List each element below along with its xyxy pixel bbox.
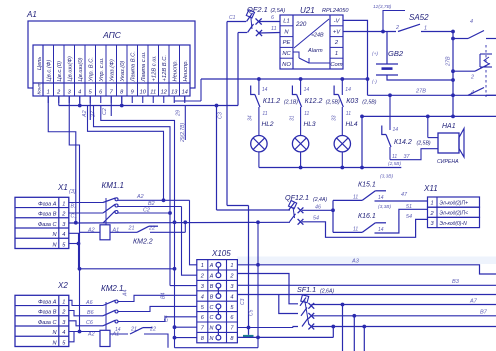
- svg-text:Фаза А: Фаза А: [38, 299, 57, 305]
- svg-text:1: 1: [62, 299, 65, 305]
- svg-text:11: 11: [346, 111, 351, 117]
- svg-text:С3: С3: [240, 298, 246, 305]
- svg-text:К11.2: К11.2: [263, 98, 280, 105]
- svg-text:14: 14: [262, 87, 268, 93]
- svg-text:С: С: [210, 305, 214, 311]
- svg-text:34: 34: [248, 115, 254, 121]
- svg-text:В4: В4: [161, 293, 167, 299]
- svg-text:N: N: [210, 336, 214, 342]
- svg-text:33: 33: [332, 115, 338, 121]
- svg-text:14: 14: [115, 327, 121, 333]
- svg-text:2: 2: [470, 75, 474, 81]
- svg-text:13: 13: [171, 90, 178, 96]
- svg-text:С: С: [210, 315, 214, 321]
- svg-text:U21: U21: [300, 6, 315, 15]
- svg-text:4: 4: [470, 19, 473, 25]
- svg-text:С1: С1: [229, 15, 236, 21]
- svg-text:14: 14: [345, 87, 351, 93]
- svg-text:С6: С6: [86, 320, 93, 326]
- svg-text:SF1.1: SF1.1: [297, 285, 316, 294]
- svg-text:54: 54: [406, 214, 412, 220]
- svg-text:11: 11: [150, 90, 156, 96]
- svg-text:С1: С1: [71, 214, 78, 220]
- svg-text:В3: В3: [452, 279, 460, 285]
- svg-text:А2: А2: [87, 332, 95, 338]
- svg-text:А7: А7: [469, 298, 478, 304]
- svg-text:В: В: [210, 284, 214, 290]
- svg-text:(3,3В): (3,3В): [378, 204, 391, 210]
- svg-text:СИРЕНА: СИРЕНА: [437, 159, 459, 165]
- svg-text:QF12.1: QF12.1: [285, 193, 309, 202]
- svg-text:Цв.ши(Ф): Цв.ши(Ф): [67, 56, 73, 81]
- svg-text:1: 1: [335, 51, 338, 57]
- svg-text:А3: А3: [351, 259, 360, 265]
- svg-text:Неиспр.: Неиспр.: [172, 60, 178, 82]
- svg-text:+12В В.С.: +12В В.С.: [162, 55, 168, 82]
- svg-text:51: 51: [406, 204, 412, 210]
- svg-text:HL2: HL2: [262, 121, 274, 128]
- svg-text:К14.2: К14.2: [394, 139, 412, 146]
- svg-text:14: 14: [378, 195, 384, 201]
- svg-text:12: 12: [161, 90, 168, 96]
- svg-text:КМ1.1: КМ1.1: [102, 181, 125, 190]
- svg-text:(-): (-): [372, 79, 377, 85]
- svg-text:Фаза С: Фаза С: [38, 222, 58, 228]
- svg-text:37: 37: [404, 154, 411, 160]
- svg-text:N: N: [210, 326, 214, 332]
- svg-text:Упр. с.ш.: Упр. с.ш.: [99, 57, 105, 82]
- svg-text:4: 4: [201, 294, 204, 300]
- svg-text:SA52: SA52: [409, 13, 429, 22]
- svg-text:11: 11: [304, 111, 309, 117]
- svg-text:К03: К03: [346, 98, 358, 105]
- svg-text:GB2: GB2: [388, 49, 404, 58]
- svg-text:11: 11: [271, 26, 277, 32]
- svg-text:Указ.(0): Указ.(0): [120, 61, 126, 83]
- svg-text:12(3,7В): 12(3,7В): [373, 4, 392, 10]
- svg-text:К12.2: К12.2: [305, 98, 323, 105]
- svg-text:С2: С2: [143, 208, 150, 214]
- svg-text:54: 54: [313, 216, 319, 222]
- svg-text:С2: С2: [102, 108, 108, 115]
- svg-text:11: 11: [353, 195, 358, 201]
- svg-text:В1: В1: [71, 204, 77, 210]
- svg-text:Com: Com: [330, 62, 342, 68]
- svg-text:Х11: Х11: [423, 184, 438, 193]
- svg-text:Упр. В.С.: Упр. В.С.: [88, 57, 94, 83]
- svg-text:31: 31: [290, 115, 296, 121]
- svg-text:HL3: HL3: [304, 121, 316, 128]
- svg-text:Фаза В: Фаза В: [38, 212, 57, 218]
- svg-text:КМ2.2: КМ2.2: [133, 239, 153, 246]
- svg-text:Конт: Конт: [37, 82, 43, 94]
- svg-text:Указ.(Ф): Указ.(Ф): [109, 59, 115, 82]
- svg-text:QF2.1: QF2.1: [247, 5, 268, 14]
- svg-text:+12В с.ш.: +12В с.ш.: [151, 55, 157, 81]
- svg-text:АПС: АПС: [102, 30, 122, 40]
- svg-text:1: 1: [230, 263, 233, 269]
- svg-text:11: 11: [392, 154, 397, 160]
- svg-text:(2,4А): (2,4А): [313, 197, 327, 203]
- svg-text:14: 14: [378, 227, 384, 233]
- svg-text:Цепь: Цепь: [37, 57, 43, 70]
- svg-text:14: 14: [393, 127, 399, 133]
- svg-text:(2,5В): (2,5В): [388, 161, 401, 167]
- svg-text:1: 1: [201, 263, 204, 269]
- svg-text:Эл-код(2)П<: Эл-код(2)П<: [440, 211, 469, 217]
- svg-text:Фаза С: Фаза С: [38, 320, 58, 326]
- svg-text:14: 14: [304, 87, 310, 93]
- svg-text:4: 4: [230, 294, 233, 300]
- svg-text:Эл-код(0)-N: Эл-код(0)-N: [440, 221, 468, 227]
- svg-text:PE: PE: [283, 40, 291, 46]
- svg-text:А1: А1: [26, 10, 37, 19]
- svg-text:9: 9: [131, 90, 134, 96]
- svg-text:(+): (+): [372, 51, 378, 57]
- svg-text:(2,6А): (2,6А): [320, 289, 334, 295]
- svg-text:(3,3В): (3,3В): [380, 174, 393, 180]
- svg-text:А2: А2: [136, 194, 144, 200]
- svg-text:В7: В7: [480, 309, 488, 315]
- svg-text:Эл-код(2)П+: Эл-код(2)П+: [440, 200, 469, 206]
- svg-text:NO: NO: [282, 62, 291, 68]
- svg-text:4: 4: [78, 90, 81, 96]
- svg-text:HL4: HL4: [346, 121, 358, 128]
- svg-text:Лампа с.ш.: Лампа с.ш.: [141, 51, 147, 82]
- svg-text:(2,1В): (2,1В): [284, 100, 298, 106]
- svg-text:RPL24050: RPL24050: [322, 8, 349, 14]
- svg-text:В: В: [210, 294, 214, 300]
- svg-text:Цв.с.(0): Цв.с.(0): [57, 61, 63, 82]
- svg-text:Х105: Х105: [211, 249, 231, 258]
- svg-text:А4: А4: [123, 290, 129, 297]
- svg-text:4: 4: [62, 232, 65, 238]
- svg-text:К15.1: К15.1: [358, 182, 376, 189]
- svg-text:(2,5А): (2,5А): [271, 8, 286, 14]
- svg-text:11: 11: [353, 227, 358, 233]
- svg-text:Неиспр.: Неиспр.: [183, 60, 189, 82]
- svg-text:С4: С4: [164, 315, 170, 322]
- svg-text:Alarm: Alarm: [307, 48, 323, 54]
- svg-text:6: 6: [271, 15, 274, 21]
- svg-text:1: 1: [430, 201, 433, 207]
- svg-text:27В: 27В: [415, 89, 426, 95]
- svg-text:1: 1: [47, 90, 50, 96]
- svg-text:1: 1: [62, 201, 65, 207]
- svg-text:НА1: НА1: [442, 123, 456, 130]
- svg-text:4: 4: [62, 330, 65, 336]
- svg-text:Фаза А: Фаза А: [38, 201, 57, 207]
- svg-text:А: А: [209, 263, 214, 269]
- svg-text:29(2.7В): 29(2.7В): [180, 122, 186, 143]
- svg-text:А6: А6: [85, 300, 93, 306]
- svg-text:NC: NC: [282, 51, 291, 57]
- svg-text:46: 46: [315, 205, 321, 211]
- svg-text:14: 14: [182, 90, 188, 96]
- svg-text:С3: С3: [218, 112, 224, 119]
- svg-text:К16.1: К16.1: [358, 213, 376, 220]
- svg-text:21: 21: [128, 226, 135, 232]
- svg-text:≈24В: ≈24В: [311, 33, 324, 39]
- svg-text:КМ2.1: КМ2.1: [101, 284, 124, 293]
- svg-text:Лампа В.С.: Лампа В.С.: [130, 51, 136, 82]
- svg-text:Фаза В: Фаза В: [38, 310, 57, 316]
- svg-text:2: 2: [395, 25, 399, 31]
- svg-text:Цв.с.(Ф): Цв.с.(Ф): [46, 60, 52, 82]
- svg-text:47: 47: [401, 192, 408, 198]
- svg-text:11: 11: [262, 111, 267, 117]
- svg-text:С5: С5: [249, 309, 255, 316]
- svg-text:L1: L1: [283, 19, 289, 25]
- svg-text:В6: В6: [87, 310, 94, 316]
- svg-text:(2,5В): (2,5В): [326, 100, 340, 106]
- svg-text:В2: В2: [148, 201, 155, 207]
- svg-text:(2,5В): (2,5В): [362, 100, 376, 106]
- svg-text:Х1: Х1: [57, 183, 68, 192]
- svg-text:220: 220: [295, 21, 307, 28]
- svg-text:1: 1: [424, 26, 427, 32]
- svg-text:Цв.ши(0): Цв.ши(0): [78, 57, 84, 81]
- svg-text:27В: 27В: [446, 56, 452, 67]
- svg-text:(2,5В): (2,5В): [417, 141, 431, 147]
- svg-text:10: 10: [140, 90, 147, 96]
- svg-text:А: А: [209, 274, 214, 280]
- svg-text:(З): (З): [69, 189, 76, 195]
- svg-text:Х2: Х2: [57, 281, 68, 290]
- svg-text:29: 29: [176, 110, 182, 117]
- svg-text:+V: +V: [333, 29, 341, 35]
